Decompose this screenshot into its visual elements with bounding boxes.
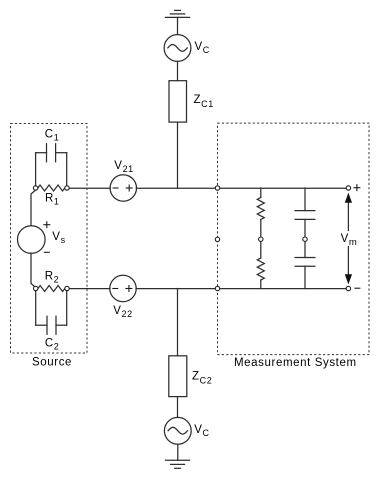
svg-text:Measurement System: Measurement System <box>234 357 357 369</box>
svg-text:Source: Source <box>32 357 72 369</box>
